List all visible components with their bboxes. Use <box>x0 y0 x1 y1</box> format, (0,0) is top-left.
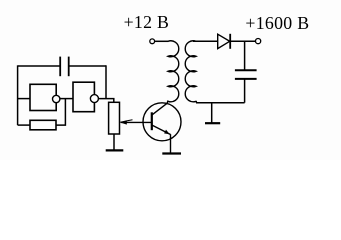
svg-text:+12 В: +12 В <box>124 12 170 32</box>
diode VD1 <box>218 34 231 49</box>
potentiometer R2 <box>109 102 120 134</box>
wire C1 left to input node <box>18 65 60 67</box>
wire pot bottom to ground <box>113 134 115 150</box>
capacitor C1 feedback <box>60 57 68 77</box>
wire junction down to capacitor C2 <box>244 41 246 70</box>
wire C1 right to output node <box>69 65 106 67</box>
wire input node to R1 <box>18 124 30 126</box>
transistor VT1 <box>143 103 181 154</box>
wire into inverter 1 input <box>18 98 30 100</box>
resistor R1 feedback <box>30 120 56 130</box>
wire C2 bottom to rail <box>244 80 246 103</box>
inverter U1.2 <box>73 82 98 112</box>
wire R1 to feedback vertical <box>56 99 65 126</box>
pot wiper arrow to base <box>120 120 152 125</box>
wire vertical from C1 right down <box>105 65 107 98</box>
wire inverter1 out to inverter2 in <box>60 98 73 100</box>
wire winding bottom to collector <box>152 101 168 115</box>
ground (secondary) <box>205 103 220 124</box>
bottom rail of secondary <box>196 101 245 103</box>
transformer secondary winding L2 <box>185 41 196 102</box>
wire input node vertical <box>17 65 19 125</box>
inverter U1.1 <box>30 84 60 110</box>
wire terminal to primary winding <box>155 40 169 42</box>
ground (emitter) <box>162 152 181 154</box>
transformer primary winding L1 <box>168 41 179 102</box>
wire inverter2 out to pot node <box>98 99 113 103</box>
wire diode to terminal <box>230 40 255 42</box>
svg-text:+1600 В: +1600 В <box>245 13 309 33</box>
terminal +1600V <box>256 39 261 44</box>
ground (pot) <box>106 149 124 151</box>
wire secondary top to diode <box>193 40 218 42</box>
capacitor C2 <box>235 70 257 79</box>
terminal +12V <box>150 39 155 44</box>
